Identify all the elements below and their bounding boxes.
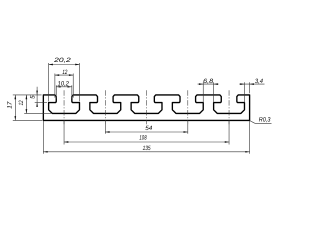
dimension 54 (slot 2 to slot 4 centers) [105, 121, 188, 134]
dimension 12 (slot depth) [18, 95, 51, 114]
dimension 108 (slot 1 to slot 5 centers) [64, 121, 229, 145]
dimension 17 (profile height) [6, 95, 42, 121]
slot 2 centerline [104, 90, 106, 124]
dimension 6,8 (web between cavities) [198, 78, 219, 103]
svg-text:3,4: 3,4 [255, 78, 264, 85]
dimension 135 (overall width) [43, 121, 249, 154]
leader R0,3 (corner radius callout) [250, 117, 272, 124]
svg-text:20,2: 20,2 [53, 57, 72, 64]
svg-text:R0,3: R0,3 [259, 117, 271, 124]
dimension 10,2 (slot opening between walls) [56, 81, 72, 99]
slot 5 centerline [228, 90, 230, 124]
svg-text:12: 12 [18, 100, 25, 105]
svg-text:12: 12 [62, 69, 67, 76]
dimension 12 (slot opening at surface) [55, 69, 73, 97]
profile outline: 135x17 aluminium plate with five T-slots [43, 95, 249, 121]
slot 4 centerline [187, 90, 189, 124]
svg-text:108: 108 [139, 135, 147, 142]
svg-text:10,2: 10,2 [57, 81, 69, 88]
svg-text:17: 17 [6, 101, 13, 109]
dimension 3,4 (end wall thickness) [239, 78, 264, 103]
svg-text:54: 54 [145, 125, 153, 132]
slot 3 centerline [146, 90, 148, 124]
svg-text:135: 135 [143, 145, 151, 152]
dimension 5 (opening depth) [30, 87, 48, 107]
dimension 20,2 (slot cavity width) [49, 57, 80, 101]
slot 1 centerline [63, 90, 65, 124]
svg-text:6,8: 6,8 [203, 78, 214, 85]
svg-text:5: 5 [30, 95, 37, 99]
